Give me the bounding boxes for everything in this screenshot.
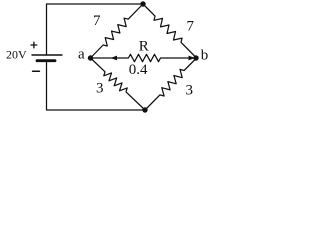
svg-text:20V: 20V: [6, 48, 27, 62]
svg-text:R: R: [139, 38, 149, 54]
svg-text:7: 7: [93, 13, 101, 29]
svg-text:3: 3: [186, 83, 194, 99]
svg-text:3: 3: [96, 81, 104, 97]
svg-text:a: a: [78, 47, 85, 63]
svg-text:b: b: [201, 47, 209, 63]
svg-text:0.4: 0.4: [129, 62, 148, 78]
svg-text:7: 7: [187, 19, 195, 35]
